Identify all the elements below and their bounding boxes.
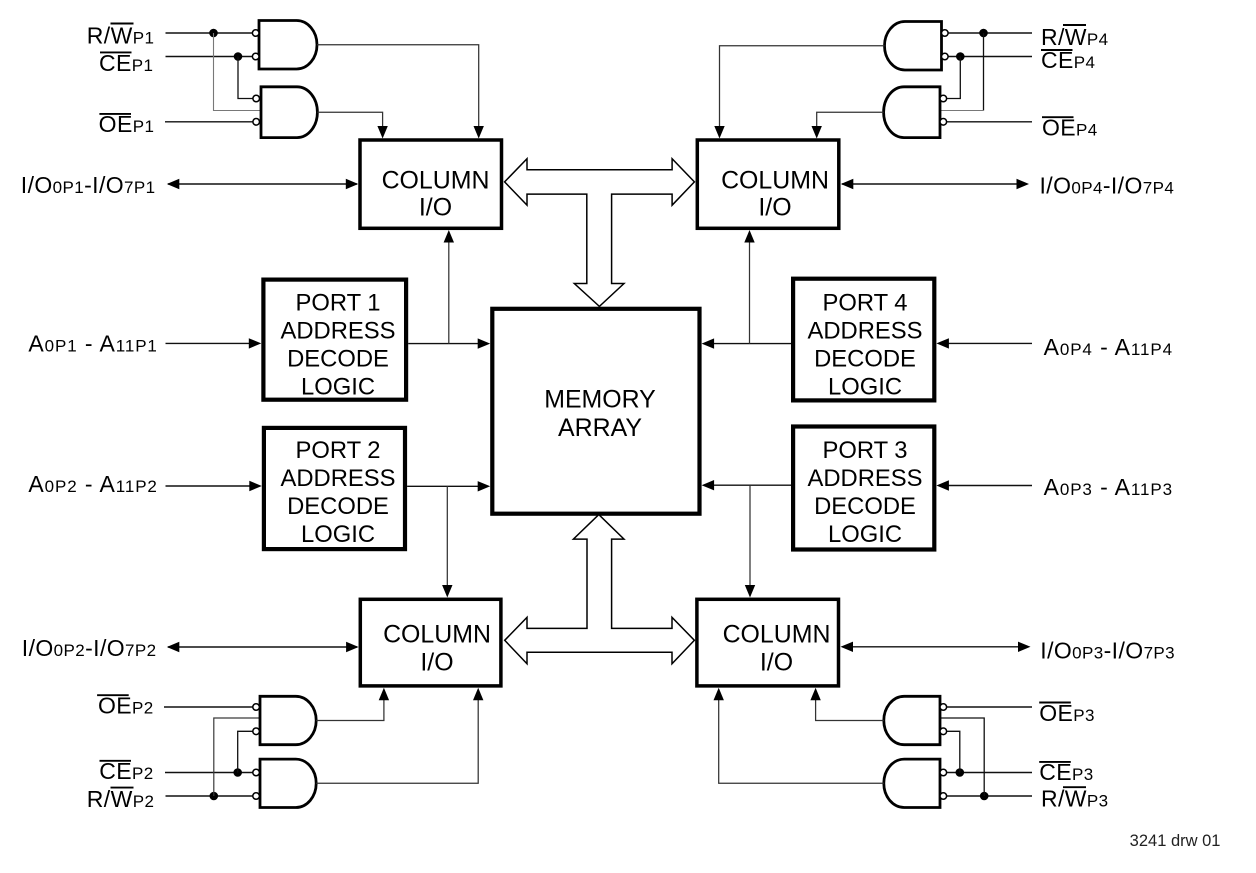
wire OEP3 input: [947, 706, 1032, 708]
inverting bubble U3 pin R/WP4: [942, 30, 949, 37]
arrowhead A P2 into PORT 2 decode: [249, 481, 261, 491]
arrowhead I/O P3 right: [1018, 642, 1031, 652]
svg-text:3241 drw 01: 3241 drw 01: [1130, 832, 1221, 850]
arrowhead PORT 2 decode into memory: [478, 481, 491, 491]
svg-text:I/O: I/O: [419, 193, 452, 221]
wire PORT 2 branch down to COLUMN I/O: [446, 486, 448, 586]
wire U1 output to COLUMN I/O P1: [317, 45, 479, 127]
overbar on W of R/WP1: [111, 23, 134, 25]
label A0P3 - A11P3: [1044, 474, 1173, 500]
hollow bidirectional arrow between COLUMN I/O P2 and P3 with branch into memory bottom: [505, 515, 695, 664]
svg-text:COLUMN: COLUMN: [723, 621, 831, 649]
and-gate U8 write-enable port3: [884, 759, 940, 807]
wire PORT 1 decode to memory array: [408, 343, 479, 345]
wire OEP1 input: [165, 121, 253, 123]
caption 3241 drw 01: [1130, 832, 1221, 850]
and-gate U1 write-enable port1: [259, 21, 317, 70]
arrowhead PORT 3 decode into memory: [702, 480, 715, 490]
svg-text:DECODE: DECODE: [287, 346, 389, 373]
svg-text:PORT 1: PORT 1: [295, 290, 380, 317]
svg-text:MEMORY: MEMORY: [544, 386, 656, 414]
wire CEP2 input: [165, 772, 253, 774]
svg-text:I/O: I/O: [420, 648, 453, 676]
wire R/WP4 branch vertical: [983, 33, 985, 111]
inverting bubble U6 pin CEP2: [253, 769, 260, 776]
svg-text:ADDRESS: ADDRESS: [807, 465, 922, 492]
arrowhead PORT 1 branch into COLUMN I/O bottom: [444, 230, 454, 243]
arrowhead A P1 into PORT 1 decode: [249, 338, 261, 348]
wire U5 output to COLUMN I/O P2: [316, 699, 384, 721]
and-gate U5 read-enable port2: [260, 696, 316, 744]
overbar on CEP1: [100, 51, 132, 53]
block PORT 3 ADDRESS DECODE LOGIC: [793, 427, 934, 550]
and-gate U6 write-enable port2: [260, 759, 316, 807]
wire PORT 4 decode to memory array: [712, 343, 791, 345]
arrowhead I/O P4 into COLUMN I/O: [841, 179, 854, 189]
wire CEP1 input: [166, 56, 253, 58]
inverting bubble U8 pin CEP3: [940, 769, 947, 776]
junction dot on R/WP1: [209, 29, 218, 38]
svg-text:I/O: I/O: [760, 648, 793, 676]
wire I/O bus P4: [842, 183, 1017, 185]
wire U4 output to COLUMN I/O P4: [817, 112, 884, 127]
label R/WP2: [87, 786, 155, 812]
label CEP4: [1041, 47, 1095, 73]
block COLUMN I/O port1: [360, 140, 502, 228]
wire CEP2 branch to read gate: [238, 731, 253, 772]
arrowhead A P4 into PORT 4 decode: [936, 338, 949, 348]
arrowhead I/O P4 right: [1017, 179, 1030, 189]
text PORT 4 ADDRESS DECODE LOGIC: [807, 290, 922, 401]
wire CEP3 input: [947, 772, 1032, 774]
wire CEP4 input: [947, 56, 1032, 58]
wire PORT 1 branch up to COLUMN I/O: [448, 241, 450, 344]
text COLUMN I/O port2: [383, 621, 491, 677]
inverting bubble U4 pin CEP4: [940, 95, 947, 102]
and-gate U7 read-enable port3: [884, 696, 940, 744]
overbar on OEP3: [1039, 702, 1071, 704]
label A0P2 - A11P2: [28, 471, 157, 497]
svg-text:PORT 3: PORT 3: [822, 437, 907, 464]
arrowhead PORT 1 decode into memory: [478, 338, 491, 348]
block COLUMN I/O port3: [697, 599, 839, 686]
label CEP2: [99, 758, 153, 784]
junction dot on CEP1: [234, 52, 243, 61]
inverting bubble U2 pin CEP1: [253, 95, 260, 102]
label A0P4 - A11P4: [1044, 334, 1173, 360]
overbar on OEP1: [99, 113, 131, 115]
overbar on W of R/WP3: [1063, 786, 1086, 788]
text PORT 1 ADDRESS DECODE LOGIC: [280, 290, 395, 401]
svg-text:COLUMN: COLUMN: [382, 166, 490, 194]
arrowhead PORT 3 branch into COLUMN I/O top: [745, 585, 755, 598]
label OEP2: [98, 692, 154, 718]
text PORT 3 ADDRESS DECODE LOGIC: [807, 437, 922, 548]
wire PORT 3 branch down to COLUMN I/O: [749, 485, 751, 586]
overbar on OEP4: [1042, 116, 1074, 118]
wire I/O bus P3: [842, 646, 1019, 648]
label CEP1: [99, 50, 153, 76]
text MEMORY ARRAY: [544, 386, 656, 442]
wire R/WP3 input: [947, 795, 1032, 797]
overbar on W of R/WP4: [1063, 24, 1086, 26]
wire U8 output to COLUMN I/O P3: [719, 699, 884, 783]
svg-text:LOGIC: LOGIC: [301, 521, 375, 548]
svg-text:ADDRESS: ADDRESS: [807, 318, 922, 345]
wire R/WP4 input: [947, 32, 1032, 34]
hollow bidirectional arrow between COLUMN I/O P1 and P4 with branch into memory top: [505, 159, 695, 307]
wire R/WP2 branch to read gate: [214, 718, 260, 796]
block PORT 2 ADDRESS DECODE LOGIC: [264, 428, 405, 549]
block PORT 1 ADDRESS DECODE LOGIC: [263, 280, 406, 400]
wire U7 output to COLUMN I/O P3: [816, 699, 884, 721]
inverting bubble U4 pin OEP4: [940, 119, 947, 126]
and-gate U3 write-enable port4: [885, 22, 942, 71]
text PORT 2 ADDRESS DECODE LOGIC: [280, 437, 395, 548]
svg-text:DECODE: DECODE: [814, 493, 916, 520]
arrowhead PORT 4 decode into memory: [702, 338, 715, 348]
and-gate U2 read-enable port1: [261, 87, 317, 138]
overbar on CEP4: [1041, 49, 1073, 51]
arrowhead U2 output into COLUMN I/O P1: [377, 126, 387, 139]
arrowhead U8 output into COLUMN I/O P3: [714, 688, 724, 701]
junction dot on CEP4: [956, 52, 965, 61]
svg-text:PORT 2: PORT 2: [295, 437, 380, 464]
wire I/O bus P1: [168, 183, 357, 185]
label I/O0P3-I/O7P3: [1040, 637, 1175, 663]
wire A0P2-A11P2 to PORT 2 decode: [166, 485, 251, 487]
wire A0P4-A11P4 to PORT 4 decode: [948, 342, 1032, 344]
junction dot on R/WP3: [980, 792, 989, 801]
svg-text:COLUMN: COLUMN: [383, 621, 491, 649]
wire OEP4 input: [947, 121, 1032, 123]
wire U3 output to COLUMN I/O P4: [720, 46, 885, 127]
label OEP1: [99, 111, 155, 137]
text COLUMN I/O port3: [723, 621, 831, 677]
inverting bubble U5 pin CEP2: [253, 728, 260, 735]
label I/O0P2-I/O7P2: [22, 635, 157, 661]
arrowhead I/O P3 into COLUMN I/O: [841, 642, 854, 652]
wire R/WP1 input: [166, 32, 253, 34]
wire R/WP2 input: [166, 795, 253, 797]
junction dot on R/WP2: [210, 792, 219, 801]
wire R/WP3 branch to read gate: [940, 718, 984, 796]
svg-text:PORT 4: PORT 4: [822, 290, 907, 317]
inverting bubble U8 pin R/WP3: [940, 793, 947, 800]
wire R/WP4 branch to read gate: [940, 110, 984, 112]
block COLUMN I/O port4: [697, 140, 839, 228]
overbar on CEP3: [1039, 761, 1071, 763]
arrowhead I/O P2 left: [167, 642, 180, 652]
svg-text:DECODE: DECODE: [287, 493, 389, 520]
junction dot on CEP2: [233, 768, 242, 777]
arrowhead PORT 4 branch into COLUMN I/O bottom: [744, 230, 754, 243]
wire U2 output to COLUMN I/O P1: [317, 112, 382, 127]
arrowhead U6 output into COLUMN I/O P2: [473, 688, 483, 701]
junction dot on CEP3: [956, 768, 965, 777]
inverting bubble U7 pin OEP3: [940, 704, 947, 711]
wire U6 output to COLUMN I/O P2: [316, 699, 478, 783]
junction dot on R/WP4: [979, 29, 988, 38]
overbar on W of R/WP2: [111, 787, 134, 789]
arrowhead A P3 into PORT 3 decode: [936, 480, 949, 490]
arrowhead I/O P1 left: [167, 179, 180, 189]
inverting bubble U3 pin CEP4: [942, 53, 949, 60]
arrowhead U7 output into COLUMN I/O P3: [810, 688, 820, 701]
svg-text:LOGIC: LOGIC: [301, 374, 375, 401]
inverting bubble U6 pin R/WP2: [253, 793, 260, 800]
wire I/O bus P2: [168, 646, 357, 648]
wire CEP4 branch to read gate: [947, 57, 961, 99]
text COLUMN I/O port4: [721, 166, 829, 221]
label R/WP3: [1041, 785, 1109, 811]
text COLUMN I/O port1: [382, 166, 490, 221]
block PORT 4 ADDRESS DECODE LOGIC: [793, 279, 934, 401]
svg-text:LOGIC: LOGIC: [828, 374, 902, 401]
svg-text:LOGIC: LOGIC: [828, 521, 902, 548]
arrowhead I/O P2 into COLUMN I/O: [346, 642, 359, 652]
arrowhead U1 output into COLUMN I/O P1: [474, 126, 484, 139]
svg-text:ADDRESS: ADDRESS: [280, 318, 395, 345]
arrowhead PORT 2 branch into COLUMN I/O top: [442, 585, 452, 598]
wire R/WP1 branch to read gate: [214, 33, 262, 111]
label I/O0P4-I/O7P4: [1040, 172, 1175, 198]
svg-text:COLUMN: COLUMN: [721, 166, 829, 194]
wire OEP2 input: [164, 706, 253, 708]
arrowhead U3 output into COLUMN I/O P4: [714, 126, 724, 139]
label R/WP1: [87, 22, 155, 48]
wire PORT 2 decode to memory array: [407, 485, 479, 487]
label OEP4: [1042, 115, 1098, 141]
overbar on OEP2: [97, 694, 129, 696]
inverting bubble U1 pin CEP1: [252, 53, 259, 60]
arrowhead U5 output into COLUMN I/O P2: [379, 688, 389, 701]
inverting bubble U2 pin OEP1: [253, 119, 260, 126]
block MEMORY ARRAY: [492, 309, 699, 514]
arrowhead U4 output into COLUMN I/O P4: [812, 126, 822, 139]
wire A0P3-A11P3 to PORT 3 decode: [948, 485, 1032, 487]
svg-text:DECODE: DECODE: [814, 346, 916, 373]
svg-text:ARRAY: ARRAY: [558, 414, 642, 442]
wire CEP3 branch to read gate: [947, 731, 960, 772]
wire CEP1 branch to read gate: [238, 57, 253, 99]
label I/O0P1-I/O7P1: [21, 172, 156, 198]
overbar on CEP2: [100, 760, 132, 762]
block COLUMN I/O port2: [360, 599, 501, 686]
inverting bubble U1 pin R/WP1: [252, 30, 259, 37]
label A0P1 - A11P1: [28, 331, 157, 357]
label R/WP4: [1041, 24, 1109, 50]
label CEP3: [1039, 759, 1093, 785]
svg-text:I/O: I/O: [758, 193, 791, 221]
wire PORT 4 branch up to COLUMN I/O: [749, 241, 751, 344]
and-gate U4 read-enable port4: [884, 87, 940, 138]
label OEP3: [1039, 700, 1095, 726]
svg-text:ADDRESS: ADDRESS: [280, 465, 395, 492]
inverting bubble U5 pin OEP2: [253, 704, 260, 711]
arrowhead I/O P1 into COLUMN I/O: [346, 179, 359, 189]
inverting bubble U7 pin CEP3: [940, 728, 947, 735]
wire PORT 3 decode to memory array: [712, 484, 791, 486]
wire A0P1-A11P1 to PORT 1 decode: [166, 342, 251, 344]
